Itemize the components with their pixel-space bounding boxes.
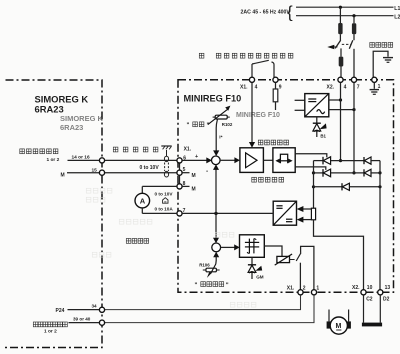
sense arrow top from shunt to U3 (297, 206, 312, 212)
svg-text:1: 1 (316, 286, 319, 292)
summing junction S2 (212, 243, 221, 252)
svg-text:R102: R102 (222, 122, 233, 127)
svg-text:i*: i* (219, 135, 222, 141)
potentiometer R102 (208, 106, 233, 127)
terminal X1:8 (177, 181, 186, 189)
fuse F2 (352, 23, 356, 34)
wire contact to terminal X1:2 (299, 263, 301, 290)
isolation amplifier U3 (273, 201, 296, 225)
wire feedback down to summing S2 (213, 213, 219, 243)
diode V3 (364, 157, 371, 164)
motor brush right (346, 321, 351, 328)
fuse F3 (339, 57, 344, 67)
terminal X1:2 bottom (287, 286, 306, 295)
chassis earth symbol (383, 58, 393, 63)
svg-text:2: 2 (303, 286, 306, 292)
terminal 15 on SIMOREG border (99, 170, 104, 175)
motor armature lead left (328, 310, 330, 322)
svg-text:10: 10 (367, 285, 373, 291)
title SIMOREG K 6RA23 (35, 93, 89, 114)
terminal X1:5 (177, 167, 186, 175)
wire drop from L2 to fuse F2 (353, 16, 355, 24)
summing junction S1 (212, 156, 221, 165)
svg-text:C2: C2 (366, 297, 373, 303)
svg-text:1 or 2: 1 or 2 (44, 328, 57, 334)
motor brush left (327, 321, 332, 328)
thyristor V2 (323, 169, 331, 177)
label current regulator (pseudo CJK) (252, 177, 284, 182)
wire X1:6 to summing junction (182, 157, 212, 163)
wire stub below resistor (275, 102, 277, 110)
wire L1 (296, 6, 394, 8)
terminal X2:1 (372, 77, 381, 90)
wire M 15 to terminal (67, 172, 99, 174)
junction row3 left (312, 185, 315, 188)
svg-text:{: { (287, 3, 293, 22)
title MINIREG F10 (184, 93, 242, 103)
svg-text:L1: L1 (394, 6, 400, 12)
wire row1 to diode V3 (331, 160, 364, 162)
contactor contact K1 (335, 40, 341, 48)
node C2 label (366, 297, 373, 303)
svg-text:M: M (192, 186, 196, 192)
SIMOREG K 6RA23 enclosure border (5, 80, 102, 348)
wire X1:9 to resistor (275, 83, 277, 89)
wire fuse F1 to contact K1 (339, 34, 341, 40)
terminal 34 on SIMOREG border (92, 304, 105, 313)
terminal X1:9 (273, 77, 282, 90)
potentiometer R106 (199, 261, 219, 278)
wire between boxes setpoint (105, 159, 177, 161)
svg-text:2AC 45 - 65 Hz 400V: 2AC 45 - 65 Hz 400V (241, 10, 291, 16)
wire PSU right to bus B (329, 108, 356, 111)
wire PSU left stub bottom (295, 109, 305, 111)
diode GM below gate unit (248, 257, 264, 279)
wire drop from L1 to fuse F1 (339, 7, 341, 23)
label "current" quoted (pseudo CJK) (187, 122, 210, 129)
ammeter P1 (135, 193, 150, 208)
wire PSU left stub top (295, 99, 305, 101)
wire X1:8 to ammeter (142, 186, 176, 193)
plus sign at summing input (195, 154, 198, 160)
relay contact output bracket (301, 246, 314, 289)
terminal X2:13 bottom (378, 285, 391, 295)
ghost scan bleed-through marks (86, 188, 256, 307)
svg-text:": " (195, 283, 198, 289)
contactor contact K2 (349, 40, 353, 49)
svg-text:1 or 2: 1 or 2 (47, 157, 60, 163)
gate firing unit A3 (240, 235, 265, 257)
svg-text:X1.: X1. (184, 147, 192, 153)
field load black bar (362, 323, 382, 327)
svg-text:13: 13 (385, 285, 391, 291)
wire R106 to summing S2 (213, 252, 219, 261)
wire contact K1 to fuse F3 (340, 48, 342, 56)
value label 0 to 10A meter (155, 206, 174, 211)
mechanical link dashed (342, 43, 351, 45)
svg-text:B1: B1 (320, 134, 326, 139)
label chassis ground (pseudo CJK) (370, 43, 393, 48)
svg-text:6RA23: 6RA23 (35, 103, 64, 114)
wire fuse F3 to terminal X2:4 (340, 67, 342, 78)
svg-text:MINIREG F10: MINIREG F10 (184, 93, 242, 103)
svg-text:GM: GM (256, 274, 264, 279)
junction on L1 (339, 6, 342, 9)
terminal X1:6 (177, 147, 192, 163)
right bus D2 down to terminal X2:13 (379, 161, 381, 290)
wire X1:5 stub to M (182, 173, 195, 179)
label "current control" quoted (pseudo CJK) (195, 282, 229, 289)
thyristor V1 (323, 157, 331, 165)
wire row1 left lead (314, 160, 324, 162)
ghost watermark text (60, 112, 280, 132)
svg-text:L2: L2 (394, 14, 400, 20)
wire X1:1 down and left to binary input (105, 295, 314, 323)
earth of cable shield (161, 146, 171, 149)
value label 0 to 10V (140, 165, 160, 171)
label M left (61, 173, 65, 179)
MINIREG F10 enclosure border (178, 80, 394, 292)
node L1 label (394, 6, 400, 12)
mains label 2AC 45 - 65 Hz 400V (241, 3, 294, 22)
sense arrow bottom from shunt to U3 (297, 217, 312, 223)
svg-text:M: M (192, 173, 196, 179)
junction on L2 (352, 14, 355, 17)
label example aux contact (pseudo CJK) (199, 53, 293, 58)
label i* (219, 135, 222, 141)
label regulator start (pseudo CJK) (258, 140, 288, 145)
diode V4 (364, 169, 371, 176)
wire X2:13 down to field bar (379, 295, 381, 323)
wire PSU right to bus A (329, 98, 342, 101)
svg-text:SIMOREG K: SIMOREG K (60, 114, 104, 123)
wire contact K2 to terminal X2:7 (353, 49, 355, 78)
wire X1:7 current monitor line to U3 (182, 212, 273, 214)
bus A from X2:4 down to thyristor row 1 (339, 83, 342, 163)
node D2 label (383, 297, 390, 303)
svg-text:D2: D2 (383, 297, 390, 303)
svg-text:6RA23: 6RA23 (60, 123, 83, 132)
fuse F1 (338, 23, 342, 34)
shunt resistor R-shunt (311, 208, 315, 220)
wire A1 to pulse limiter (263, 159, 273, 161)
power supply unit U2 (AC/DC) (305, 94, 329, 117)
svg-text:14 or 16: 14 or 16 (72, 155, 90, 161)
label analog select output (pseudo CJK) (20, 149, 60, 163)
wire linking terminals X1:6 X1:5 X1:8 along border (179, 160, 181, 186)
motor armature lead right (348, 310, 350, 322)
label binary select input (pseudo CJK) (33, 322, 67, 334)
internal earth below X2:1 (370, 83, 379, 95)
terminal X2:7 (351, 77, 359, 90)
junction current feedback (214, 212, 217, 215)
wire S2 to gate unit (221, 244, 240, 250)
relay coil K3 (275, 254, 292, 265)
wire L2 (296, 15, 394, 17)
wire X1:8 stub to M (182, 186, 195, 192)
op-amp current regulator A1 (240, 148, 264, 173)
shielded cable symbol (164, 150, 168, 177)
wire row3 to freewheel diode (314, 186, 343, 188)
svg-text:0 to 10V: 0 to 10V (140, 165, 160, 171)
svg-text:P24: P24 (56, 308, 65, 314)
svg-text:X1.: X1. (287, 286, 295, 292)
svg-text:X1.: X1. (240, 85, 248, 91)
terminal X1:7 (177, 208, 186, 216)
terminal X2:10 bottom (352, 285, 373, 295)
wire chassis ground to terminal X2:1 (373, 51, 388, 77)
resistor on X1:9 (273, 89, 278, 102)
svg-text:": " (226, 283, 229, 289)
motor M1 (330, 317, 347, 334)
example auxiliary contact of line contactor (252, 60, 274, 77)
wire R102 wiper to summing junction (213, 120, 219, 157)
svg-text:A: A (140, 196, 146, 205)
actuator arrow of contactor (327, 45, 337, 50)
svg-text:X2.: X2. (327, 84, 335, 90)
value label 0 to 10V meter (155, 192, 174, 197)
svg-text:+: + (195, 154, 198, 160)
wire X1:2 down and left to P24 (105, 295, 301, 310)
wire shunt down and over to terminal X2:10 (314, 220, 364, 290)
diode B1 below PSU (313, 117, 327, 139)
svg-text:M: M (336, 323, 342, 330)
minus sign at summing input (206, 168, 208, 175)
wire X1:4 controller-enable down to regulator (249, 83, 255, 148)
label P24 and wire (56, 308, 100, 314)
relay contact blade (296, 253, 301, 261)
bus B from X2:7 down to row 2 (352, 83, 355, 175)
wire between boxes M (105, 172, 177, 174)
wire X2:10 down to field bar (363, 295, 365, 323)
left bus C2 with shunt (313, 161, 315, 209)
svg-text:M: M (61, 173, 65, 179)
wire row1 to right bus corner (371, 160, 380, 162)
wire fuse F2 to contact K2 (353, 34, 355, 40)
wire coil to contact (290, 259, 295, 261)
wire gate unit to relay coil (264, 246, 282, 256)
svg-text:0 to 10V: 0 to 10V (155, 192, 174, 197)
wire setpoint 14/16 to terminal (68, 159, 100, 161)
wire ammeter to X1:7 (142, 208, 176, 214)
freewheel diode V5 (342, 183, 349, 190)
terminal X1:1 bottom (311, 286, 319, 295)
terminal X2:4 (327, 77, 347, 90)
terminal X1:4 (240, 77, 258, 90)
wire feedback up to summing S1 (213, 164, 219, 213)
pulse limiter block A2 (273, 148, 295, 173)
svg-text:-: - (206, 168, 208, 175)
label 15 (92, 167, 98, 173)
svg-text:39 or 40: 39 or 40 (73, 317, 91, 322)
wire row3 to right bus junction (349, 185, 381, 188)
gate wire 1 from pulse block to thyristor V1 (295, 154, 327, 158)
svg-text:9: 9 (279, 85, 282, 91)
wire row2 to diode V4 (331, 172, 364, 174)
svg-text:34: 34 (92, 304, 98, 309)
gate wire 2 from pulse block to thyristor V2 (295, 167, 326, 170)
junction row2 left (312, 171, 315, 174)
wire binary input to terminal (69, 322, 100, 324)
terminal 39or40 on SIMOREG border (73, 317, 105, 326)
terminal 14or16 on SIMOREG border (99, 158, 104, 163)
svg-text:": " (187, 123, 190, 129)
svg-text:7: 7 (357, 84, 360, 90)
label 14 or 16 (72, 155, 90, 161)
svg-text:4: 4 (255, 85, 258, 91)
wire summing S1 to current regulator (220, 157, 240, 163)
wire row2 left lead (314, 172, 324, 174)
wire row2 to right bus junction (371, 171, 382, 174)
svg-text:MINIREG F10: MINIREG F10 (236, 112, 280, 119)
node L2 label (394, 14, 400, 20)
svg-text:4: 4 (344, 84, 347, 90)
svg-text:R106: R106 (199, 262, 210, 267)
label external setpoint (pseudo CJK) (113, 147, 158, 152)
label current monitor (pseudo CJK) (126, 239, 148, 244)
svg-text:0 to 10A: 0 to 10A (155, 206, 174, 211)
svg-text:X2.: X2. (352, 285, 360, 291)
selector house icon (163, 198, 168, 204)
